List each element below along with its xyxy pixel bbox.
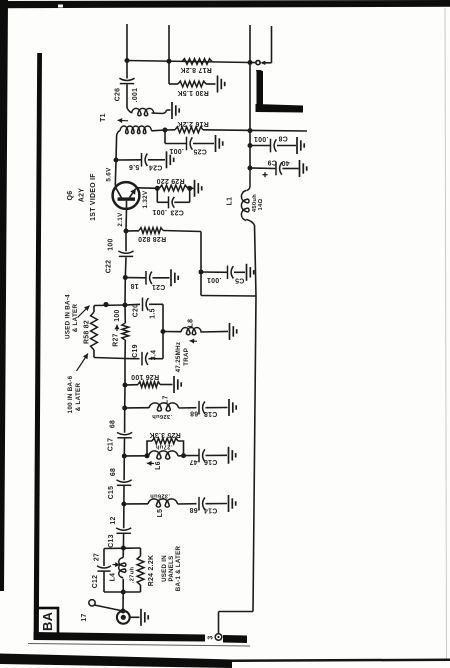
svg-text:18: 18 [130,282,138,289]
slug arrow L4 [113,562,120,567]
node junction collector/C24 [114,158,119,163]
ground C24 [167,151,174,168]
note arrow to R27 [77,354,89,372]
svg-text:R30 1.5K: R30 1.5K [177,89,209,96]
node junction L6 left [145,453,150,458]
capacitor C12 [92,549,111,593]
svg-text:.326uh: .326uh [152,413,172,419]
node junction R26 [123,383,128,388]
svg-text:5.6: 5.6 [129,163,139,170]
wire to L6 group [124,455,148,457]
label Q6 [67,191,74,201]
wire stub up from C26 node [126,24,128,61]
node junction C9 [248,166,253,171]
ground C25 [216,135,223,152]
svg-text:L5: L5 [157,509,164,518]
svg-text:100: 100 [114,309,121,321]
node junction C5 [199,270,204,275]
svg-text:1ST VIDEO IF: 1ST VIDEO IF [90,173,97,221]
node junction R17/R30 [167,59,172,64]
svg-text:5.6V: 5.6V [105,167,112,182]
capacitor C23 [152,188,190,215]
svg-text:L4: L4 [110,573,117,582]
svg-text:3.4: 3.4 [150,350,157,360]
node junction input [121,609,126,614]
label T1 [100,113,107,122]
svg-text:C15: C15 [108,486,115,500]
note USED IN BA-4 and LATER [65,294,80,339]
wire angled lead to takeoff [260,26,271,65]
svg-text:27: 27 [94,553,101,561]
svg-text:C19: C19 [132,344,139,358]
node junction T1/R16 [163,128,168,133]
ground C16 [229,447,236,464]
svg-text:C16: C16 [204,458,218,465]
slug arrow L6 [147,461,162,470]
svg-text:USED IN BA-4: USED IN BA-4 [65,294,72,339]
svg-text:.27uh: .27uh [156,444,173,450]
svg-text:68: 68 [190,410,198,417]
node junction C26/R17 [125,58,130,63]
label emitter voltage 1.32V [142,190,149,208]
ground C8 [297,137,304,154]
ground L8 [230,323,237,340]
wire trap top rail [94,304,125,307]
capacitor C24 [116,153,165,171]
coax input terminal [117,611,140,624]
wire base down [125,209,128,231]
svg-text:1.32V: 1.32V [142,190,149,208]
capacitor C17 [108,408,133,456]
wire input group bottom rail [104,591,141,593]
capacitor C21 [125,271,169,290]
svg-text:C18: C18 [204,410,218,417]
node junction top right [248,60,253,65]
node junction emitter [155,186,160,191]
page border bottom bar [0,654,450,668]
transistor Q6 [113,182,140,209]
svg-text:14Ω: 14Ω [258,198,264,210]
ground R29 [195,180,202,197]
resistor R28 [126,228,201,242]
svg-text:C13: C13 [108,534,115,548]
resistor R24 [137,548,155,592]
node junction base [124,229,129,234]
svg-text:C20: C20 [133,304,140,318]
wire B+ rail top [127,61,250,63]
inductor L6 [149,444,184,460]
ground C14 [229,495,236,512]
wire R30 branch [169,61,216,84]
note USED IN PANELS BA-1 and LATER [161,545,182,591]
svg-text:.001: .001 [207,276,222,283]
resistor R58 [84,306,98,358]
svg-text:47.25MHz: 47.25MHz [175,342,182,373]
inductor L5 [124,492,197,517]
svg-text:C9: C9 [267,159,276,166]
capacitor C25 [169,137,207,155]
note arrow to R58 [78,306,90,318]
svg-text:R25 3.3K: R25 3.3K [149,431,181,438]
svg-text:R24 2.2K: R24 2.2K [148,555,155,587]
svg-text:L1: L1 [227,197,234,206]
svg-text:L7: L7 [163,395,170,404]
wire main trap to R26 [124,359,126,386]
ground C5 [247,264,254,281]
node junction input bottom [121,590,126,595]
node junction L6 right [181,453,186,458]
wire emitter [138,187,158,190]
node junction R16/B+ line [248,128,253,133]
node junction L6 [122,454,127,459]
svg-text:12: 12 [110,516,117,524]
wire R28 to B+ via C5 node [201,232,256,297]
wire R29 to ground [190,187,194,189]
capacitor C16 [184,449,228,465]
svg-text:USED IN: USED IN [161,555,168,582]
terminal takeoff circle top right [250,61,262,71]
svg-text:68: 68 [110,468,117,476]
svg-text:C21: C21 [152,283,166,290]
svg-text:.001: .001 [132,88,139,103]
svg-text:100: 100 [107,238,114,250]
capacitor C14 [189,497,227,513]
slug arrow L8 [190,339,198,344]
node junction trap top left [103,302,108,307]
svg-text:.001: .001 [169,147,184,154]
capacitor C18 [190,401,228,417]
label base voltage 2.1V [117,212,124,227]
svg-text:1.5: 1.5 [150,308,157,318]
svg-text:.326uh: .326uh [150,492,170,498]
svg-text:68: 68 [110,420,117,428]
capacitor C19 [125,344,163,365]
capacitor C9 electrolytic [250,159,299,178]
svg-text:C22: C22 [106,260,113,274]
section divider thick vertical bar [34,53,42,640]
node junction C8 [248,143,253,148]
inductor L8 [163,319,228,335]
svg-text:R17 8.2K: R17 8.2K [180,66,212,73]
wire stub up right [249,25,251,63]
node junction trap top [123,303,128,308]
svg-text:R16 2.2K: R16 2.2K [177,120,209,127]
svg-text:C17: C17 [108,438,115,452]
svg-text:C26: C26 [115,88,122,102]
resistor R26 [125,373,173,387]
svg-text:68: 68 [189,506,197,513]
svg-text:TRAP: TRAP [183,348,190,366]
resistor R16 [175,120,209,133]
svg-text:40: 40 [281,159,289,166]
node junction input top [121,546,126,551]
svg-text:47: 47 [189,458,197,465]
wire C25 branch [165,130,214,144]
svg-text:C8: C8 [278,135,287,142]
wire stub up from R30 node [168,25,170,61]
wire R16 to right edge [165,130,307,131]
ground R30 [218,76,225,93]
wire collector [114,160,117,186]
resistor R29 [156,177,187,191]
capacitor C8 [250,135,296,153]
svg-text:17: 17 [81,613,88,621]
wire trap right rail [162,304,164,358]
svg-text:& LATER: & LATER [75,383,82,412]
svg-text:100 IN BA-6: 100 IN BA-6 [67,375,74,413]
svg-text:BA-1 & LATER: BA-1 & LATER [175,545,182,591]
resistor R25 loop [147,431,184,456]
ground C9 [300,160,307,177]
wire trap bottom rail left [94,358,125,359]
svg-text:.001: .001 [254,135,269,142]
svg-text:PANELS: PANELS [168,555,175,581]
wire B+ down right side [253,225,256,612]
resistor R30 [177,81,209,96]
svg-text:C14: C14 [204,506,218,513]
label A2Y [79,188,86,202]
node junction L5 [121,502,126,507]
svg-text:.27uh: .27uh [130,567,136,584]
capacitor C5 [201,266,245,284]
page border top bar [0,0,450,8]
section corner thick L bar top right [256,71,304,113]
ground C21 [171,269,178,286]
page border right faint edge [445,8,447,660]
svg-text:R29 220: R29 220 [156,177,184,184]
svg-text:3: 3 [207,635,214,639]
label 47.25MHz TRAP [175,342,190,373]
capacitor C22 [106,231,134,278]
node junction C21 [123,275,128,280]
svg-text:C24: C24 [149,164,163,171]
svg-text:R26 100: R26 100 [131,373,159,380]
capacitor C13 [108,504,131,548]
slug arrow T1 [118,118,129,123]
wire input group to coax [122,592,124,611]
wire T1 secondary to collector [115,136,118,160]
section divider thick bottom bar [28,632,250,646]
svg-text:450uh: 450uh [252,194,258,212]
ground R26 [174,376,181,393]
grid label box BA [37,608,59,635]
terminal 3 [207,634,222,641]
wire main to L7 [124,385,126,408]
capacitor C26 [115,61,140,109]
wire B+ vertical [249,63,251,169]
ground T1 primary [172,102,179,119]
node junction trap right [161,329,166,334]
inductor L7 [125,395,197,419]
resistor R17 [180,59,212,73]
inductor L4 [110,548,136,592]
page border left bar [0,0,8,591]
transformer T1 secondary winding [117,126,165,136]
wire terminal 3 to B+ [219,612,254,634]
capacitor C15 [108,456,132,504]
wire input group top rail [104,547,141,550]
svg-text:2.1V: 2.1V [117,212,124,227]
label 1ST VIDEO IF [90,173,97,221]
svg-text:C23: C23 [170,209,184,216]
svg-text:L6: L6 [155,461,162,470]
node junction L7 [122,406,127,411]
svg-text:R27: R27 [113,333,120,347]
ground C18 [229,399,236,416]
svg-text:C5: C5 [235,276,244,283]
label collector voltage 5.6V [105,167,112,182]
svg-text:A2Y: A2Y [79,188,86,202]
resistor R27 [113,305,129,359]
transformer T1 primary winding [127,108,163,116]
svg-text:.001: .001 [152,208,167,215]
svg-text:C25: C25 [193,148,207,155]
svg-text:L8: L8 [188,319,195,328]
svg-text:R28 820: R28 820 [138,235,166,242]
svg-text:T1: T1 [100,113,107,122]
wire T1 primary to ground [163,110,171,114]
node junction R29 right [187,186,192,191]
svg-text:Q6: Q6 [67,191,74,201]
capacitor C20 [125,298,163,319]
inductor L1 [227,168,265,225]
svg-text:BA: BA [40,611,55,631]
terminal 17 [81,600,123,622]
svg-text:C12: C12 [92,575,99,589]
svg-text:R58 82: R58 82 [84,320,91,344]
wire main line to trap [124,278,126,306]
note 100 IN BA-6 and LATER [67,375,82,413]
ground coax shield [141,609,148,626]
